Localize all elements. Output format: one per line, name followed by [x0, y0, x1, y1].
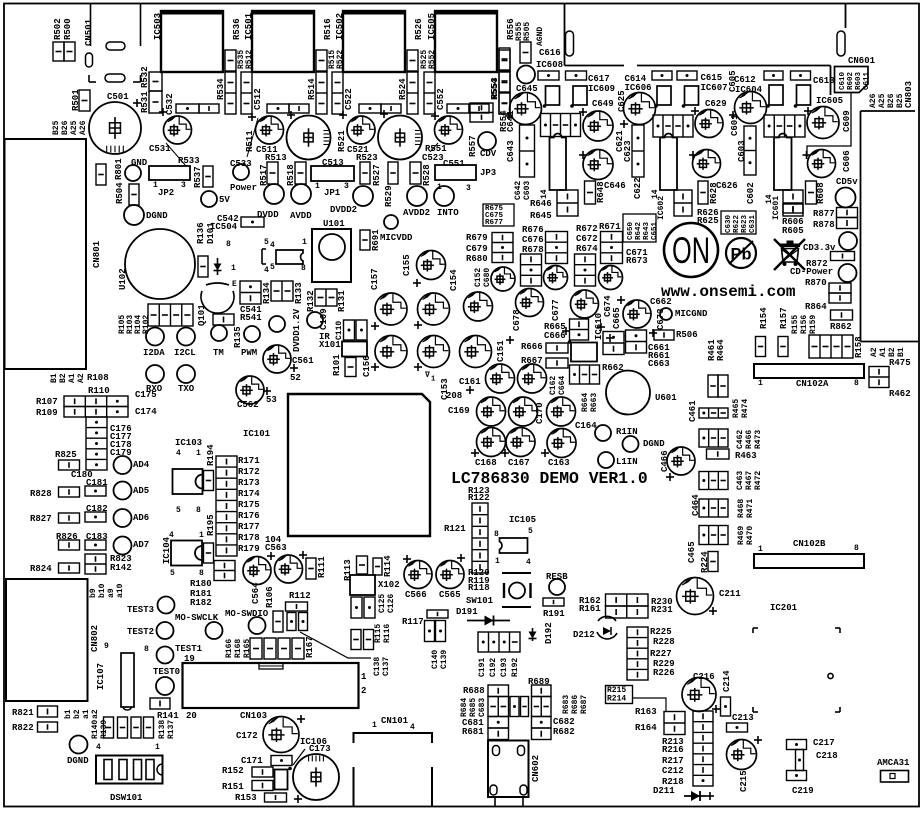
svg-text:C630: C630 [725, 214, 733, 233]
svg-text:R821: R821 [12, 708, 34, 718]
svg-text:R472: R472 [754, 471, 763, 490]
svg-text:C663: C663 [648, 359, 670, 369]
svg-text:R114: R114 [383, 555, 393, 577]
C156 plus [371, 363, 379, 371]
svg-text:JP2: JP2 [158, 188, 174, 198]
svg-text:CD-Power: CD-Power [790, 267, 833, 277]
board slot top-right [837, 31, 845, 56]
resistor R872 [831, 252, 855, 261]
ic IC501 [252, 11, 314, 72]
resistor R666 [546, 343, 568, 353]
capacitor C606 [808, 150, 836, 178]
dip switch DSW101 [96, 756, 163, 784]
svg-text:3: 3 [344, 182, 349, 191]
svg-text:R161: R161 [579, 604, 601, 614]
resistor R502 [53, 42, 64, 61]
svg-text:R537: R537 [193, 166, 203, 188]
svg-text:C611: C611 [863, 71, 871, 90]
C211 plus [709, 607, 717, 615]
resistor column R121 [472, 503, 488, 573]
C563 plus [299, 551, 307, 559]
svg-text:AVDD2: AVDD2 [403, 208, 430, 218]
svg-text:A25: A25 [70, 120, 79, 135]
svg-text:R106: R106 [265, 586, 275, 608]
svg-text:R521: R521 [337, 130, 347, 152]
svg-text:R173: R173 [238, 478, 260, 488]
svg-text:AMCA31: AMCA31 [877, 758, 910, 768]
svg-text:4: 4 [264, 266, 269, 275]
resistor network R105 R103 R104 R102 [148, 304, 193, 326]
svg-text:C213: C213 [732, 713, 754, 723]
capacitors C125 C126 [351, 597, 362, 618]
resistor R667 [546, 358, 568, 368]
svg-text:R512: R512 [245, 50, 254, 69]
svg-text:AGND: AGND [536, 27, 545, 46]
svg-text:C522: C522 [344, 88, 354, 110]
svg-text:R622: R622 [733, 214, 741, 233]
svg-text:R228: R228 [653, 637, 675, 647]
resistor R141 [150, 698, 170, 709]
svg-text:CN102B: CN102B [793, 539, 826, 549]
svg-text:R645: R645 [530, 211, 552, 221]
svg-text:C219: C219 [792, 786, 814, 796]
svg-text:R214: R214 [607, 695, 626, 704]
svg-text:C157: C157 [370, 268, 380, 290]
ic IC504 body [276, 250, 303, 264]
capacitor C678cap [516, 289, 544, 317]
plus marks caps row [248, 113, 256, 121]
svg-text:C169: C169 [448, 406, 470, 416]
svg-text:R231: R231 [651, 605, 673, 615]
ic IC107 [121, 653, 134, 710]
resistor R151 [252, 781, 273, 791]
svg-text:R552: R552 [428, 50, 437, 69]
fiducial circle [828, 673, 833, 678]
svg-text:IC101: IC101 [243, 429, 271, 439]
resistor R224 [708, 552, 718, 572]
pad MICGND [660, 308, 672, 320]
svg-text:X102: X102 [378, 580, 400, 590]
boxed labels R675 C675 R677 [483, 204, 514, 226]
svg-text:R828: R828 [30, 489, 52, 499]
capacitor C523 [378, 116, 422, 160]
ic U101 [312, 229, 351, 282]
svg-text:C561: C561 [292, 356, 314, 366]
svg-text:R224: R224 [700, 551, 710, 573]
svg-text:C215: C215 [739, 770, 749, 792]
svg-text:R116: R116 [383, 624, 392, 643]
svg-text:C622: C622 [633, 177, 643, 199]
resistor array R155 [809, 335, 853, 358]
svg-text:C562: C562 [237, 400, 259, 410]
resistor R114 [373, 558, 382, 575]
capacitor r1a [486, 364, 515, 393]
svg-text:C125: C125 [378, 594, 387, 613]
svg-text:R139: R139 [100, 720, 109, 739]
svg-text:R529: R529 [384, 185, 394, 207]
connector CN102A [754, 364, 864, 378]
capacitor C213 [727, 723, 748, 732]
CN501 slot 1 [106, 42, 125, 50]
svg-text:R180: R180 [190, 579, 212, 589]
resistor R828 [59, 487, 80, 497]
svg-text:A26: A26 [79, 120, 88, 135]
capacitor C171 [271, 756, 292, 766]
resistor R826 [59, 540, 80, 550]
svg-text:R822: R822 [12, 723, 34, 733]
svg-text:1: 1 [431, 376, 435, 384]
svg-text:DGND: DGND [67, 756, 89, 766]
svg-text:IC504: IC504 [210, 222, 238, 232]
pad AD7 [114, 537, 132, 555]
svg-text:R115: R115 [374, 624, 383, 643]
resistor column R213 [693, 711, 713, 786]
svg-text:C679: C679 [466, 244, 488, 254]
resistor array R662g [570, 365, 600, 384]
pad RXO [146, 365, 164, 383]
CN501 slot 2 [86, 53, 93, 67]
svg-text:X101: X101 [319, 340, 341, 350]
svg-text:C676: C676 [522, 235, 544, 245]
svg-text:R157: R157 [779, 307, 789, 329]
C501 plus [133, 99, 141, 107]
connector CN602 [488, 741, 529, 798]
svg-text:C564: C564 [251, 582, 261, 604]
resistor R101 [345, 358, 356, 377]
resistor array ch1 [541, 114, 581, 137]
svg-text:C682: C682 [553, 717, 575, 727]
svg-text:AD6: AD6 [133, 513, 149, 523]
pad R1IN [595, 425, 611, 441]
capacitor IC605cap [807, 107, 839, 139]
C645 plus [505, 112, 513, 120]
resistor array ch3 [764, 115, 805, 137]
svg-text:R178: R178 [238, 533, 260, 543]
resistors R823 R142 [85, 554, 106, 574]
svg-text:R137: R137 [167, 720, 176, 739]
resistor R111 [306, 558, 316, 579]
connector CN102B [754, 554, 864, 568]
jumper JP1 [311, 166, 354, 181]
svg-text:R110: R110 [88, 386, 110, 396]
svg-text:A2: A2 [870, 347, 879, 357]
svg-text:CN601: CN601 [848, 56, 876, 66]
svg-text:R182: R182 [190, 598, 212, 608]
svg-text:R685: R685 [469, 698, 478, 717]
jumper JP2 [149, 166, 190, 180]
svg-text:C214: C214 [722, 670, 732, 692]
C629 plus [691, 107, 699, 115]
svg-text:R673: R673 [626, 256, 648, 266]
svg-text:R473: R473 [754, 430, 763, 449]
svg-text:R878: R878 [813, 220, 835, 230]
svg-text:C566: C566 [405, 590, 427, 600]
labels R138 R137 [158, 720, 176, 739]
svg-text:www.onsemi.com: www.onsemi.com [661, 283, 796, 301]
capacitor C541 / resistor R541 [240, 281, 261, 304]
svg-text:C211: C211 [719, 589, 741, 599]
svg-text:R518: R518 [286, 164, 296, 186]
svg-text:R827: R827 [30, 514, 52, 524]
svg-text:20: 20 [186, 711, 197, 721]
svg-text:1: 1 [758, 545, 763, 554]
svg-text:R628: R628 [709, 182, 719, 204]
svg-text:IC107: IC107 [96, 663, 106, 690]
svg-text:R531: R531 [140, 91, 150, 113]
resistors R475 R462 [869, 367, 889, 388]
capacitor C565 [436, 561, 464, 589]
svg-text:R179: R179 [238, 544, 260, 554]
C626 plus [689, 151, 697, 159]
resistor stack mid2 [575, 254, 596, 286]
svg-text:R524: R524 [398, 78, 408, 100]
svg-text:R677: R677 [485, 219, 503, 227]
svg-text:R527: R527 [372, 164, 382, 186]
capacitor C626 [693, 150, 721, 178]
resistors R134 R133 [271, 281, 293, 301]
svg-text:C140: C140 [431, 650, 440, 669]
IC106 leader line [293, 749, 305, 765]
C154 plus [414, 321, 422, 329]
resistors R535 R512 stack [241, 72, 252, 114]
svg-text:IC605: IC605 [816, 96, 843, 106]
svg-text:R664: R664 [581, 393, 590, 412]
resistors ch1 below [557, 190, 578, 216]
pad TEST0 [156, 677, 174, 695]
C562 plus [263, 387, 271, 395]
resistor R501 [79, 90, 90, 111]
svg-text:R154: R154 [759, 307, 769, 329]
labels B25 B26 A25 A26 [52, 120, 88, 135]
svg-text:R553: R553 [490, 77, 500, 99]
pad DGND [124, 205, 144, 225]
C662 plus [617, 296, 625, 304]
svg-text:IC105: IC105 [509, 515, 536, 525]
svg-text:RESB: RESB [546, 572, 568, 582]
svg-text:R642: R642 [635, 221, 643, 240]
resistor R864 [831, 310, 853, 320]
svg-text:C193: C193 [500, 658, 509, 677]
svg-text:JP1: JP1 [324, 188, 341, 198]
svg-text:R112: R112 [289, 591, 311, 601]
svg-text:U101: U101 [323, 219, 345, 229]
svg-text:R683: R683 [562, 695, 571, 714]
svg-text:R164: R164 [635, 723, 657, 733]
svg-text:C126: C126 [387, 594, 396, 613]
svg-text:C168: C168 [475, 458, 497, 468]
pad PWM [244, 326, 260, 342]
svg-text:5: 5 [176, 506, 181, 515]
pad TEST3 [158, 597, 175, 614]
svg-text:C170: C170 [535, 402, 545, 424]
svg-text:R646: R646 [530, 199, 552, 209]
C564 plus [267, 552, 275, 560]
svg-text:C646: C646 [604, 181, 626, 191]
svg-text:C137: C137 [382, 657, 391, 676]
resistor R500 [64, 42, 75, 61]
svg-text:A26: A26 [869, 93, 878, 108]
pad CD5v [836, 188, 856, 208]
C566 plus [403, 555, 411, 563]
resistors R524 stack [407, 72, 418, 114]
svg-text:JP3: JP3 [480, 168, 496, 178]
svg-text:C651: C651 [651, 221, 659, 240]
svg-text:IC201: IC201 [770, 603, 798, 613]
svg-text:C672: C672 [576, 234, 598, 244]
svg-text:C218: C218 [816, 751, 838, 761]
svg-text:R602: R602 [847, 71, 855, 90]
svg-text:CN101: CN101 [381, 716, 409, 726]
svg-text:R684: R684 [460, 698, 469, 717]
resistor R536 [225, 50, 236, 71]
svg-text:R680: R680 [466, 254, 488, 264]
resistor column R225 [627, 627, 648, 680]
C561 plus [290, 364, 298, 372]
regulator ch1 [550, 134, 567, 191]
capacitor array C191 C192 C193 R192 [478, 632, 520, 652]
svg-text:R605: R605 [782, 226, 804, 236]
svg-text:R505: R505 [523, 22, 532, 41]
svg-text:CN803: CN803 [904, 81, 914, 108]
svg-text:C217: C217 [813, 738, 835, 748]
svg-text:C174: C174 [135, 407, 157, 417]
svg-text:R679: R679 [466, 233, 488, 243]
svg-text:1: 1 [315, 182, 320, 191]
pad IR [307, 312, 323, 328]
svg-text:C138: C138 [373, 657, 382, 676]
C172 plus [297, 715, 305, 723]
svg-text:R514: R514 [307, 78, 317, 100]
chip pair ch3 [447, 104, 469, 113]
pad TEST2 [157, 622, 174, 639]
svg-text:R676: R676 [522, 225, 544, 235]
CN501 slot 3 [105, 74, 125, 82]
labels R166 R168 R165 [225, 639, 252, 658]
resistor array R469 row [699, 526, 728, 545]
svg-text:8: 8 [494, 530, 499, 539]
resistor stack R679 [492, 233, 513, 263]
sot IC609b [573, 86, 587, 105]
svg-text:R877: R877 [813, 209, 835, 219]
svg-text:5: 5 [170, 569, 175, 578]
svg-text:R671: R671 [599, 222, 621, 232]
resistor R688 [488, 685, 509, 697]
svg-text:R133: R133 [294, 282, 304, 304]
svg-text:C631: C631 [749, 214, 757, 233]
resistor R827 [59, 513, 80, 523]
resistor R608 [806, 181, 817, 204]
plus C161 [466, 386, 474, 394]
svg-text:D211: D211 [653, 786, 675, 796]
resistor R529 [388, 162, 398, 184]
jumper JP3 [435, 165, 476, 180]
capacitor C216 [682, 678, 716, 712]
pad MO-SWCLK [206, 622, 223, 639]
capacitor C662 [623, 300, 651, 328]
svg-text:R216: R216 [662, 745, 684, 755]
labels R140 R139 [91, 720, 109, 739]
svg-text:R135: R135 [233, 326, 243, 348]
pad L1IN [598, 452, 614, 468]
svg-text:C678: C678 [512, 309, 522, 331]
IC604cap plus [729, 111, 737, 119]
crystal X102 [350, 575, 375, 595]
sot IC609a [546, 86, 560, 105]
svg-text:R226: R226 [653, 668, 675, 678]
svg-text:R132: R132 [306, 290, 316, 312]
svg-text:R541: R541 [240, 313, 262, 323]
svg-text:1: 1 [155, 743, 160, 752]
resistors ch3 below [783, 190, 803, 216]
svg-text:R663: R663 [590, 393, 599, 412]
capacitor C218 link [796, 750, 804, 771]
svg-text:C677: C677 [551, 299, 561, 321]
svg-text:8: 8 [854, 379, 859, 388]
svg-text:1: 1 [758, 379, 763, 388]
svg-text:C155: C155 [402, 254, 412, 276]
resistor R195c [204, 543, 214, 563]
svg-text:8: 8 [199, 569, 204, 578]
svg-text:C625: C625 [617, 90, 627, 112]
capacitor C214 [721, 697, 731, 716]
svg-text:R501: R501 [71, 89, 81, 111]
svg-text:TEST0: TEST0 [153, 667, 180, 677]
resistor R821 [38, 706, 58, 717]
svg-text:A1: A1 [68, 373, 77, 383]
transistor IC103 [173, 469, 203, 494]
svg-text:R166: R166 [225, 639, 234, 658]
svg-text:R603: R603 [855, 71, 863, 90]
svg-text:I2DA: I2DA [143, 348, 165, 358]
pad TEST1 [157, 647, 174, 664]
resistor stack R672 [601, 232, 623, 264]
ic IC610 [571, 343, 597, 362]
capacitors C601 C603r [744, 126, 756, 175]
svg-text:R471: R471 [746, 499, 755, 518]
C646 plus [579, 151, 587, 159]
svg-text:C664: C664 [558, 376, 567, 395]
svg-text:ON: ON [672, 230, 710, 271]
svg-text:4: 4 [96, 743, 101, 752]
capacitor C677cap [571, 290, 599, 318]
resistor R506 [654, 330, 674, 340]
svg-text:TEST1: TEST1 [175, 644, 203, 654]
capacitor C217 [787, 740, 807, 750]
svg-text:R474: R474 [741, 399, 750, 418]
resistor R682 [532, 728, 552, 740]
svg-text:C551: C551 [443, 159, 465, 169]
capacitors C663 stack [626, 330, 647, 353]
resistor R518 [295, 162, 306, 184]
capacitors C621 C623 [632, 125, 644, 177]
capacitor C168 [477, 428, 506, 457]
resistor R526 [407, 50, 418, 71]
svg-text:8: 8 [301, 264, 306, 273]
svg-text:C613: C613 [813, 76, 835, 86]
svg-text:1: 1 [196, 449, 201, 458]
resistor array R468 row [699, 499, 728, 517]
svg-text:R687: R687 [580, 695, 589, 714]
crystal X101 caps [344, 320, 368, 340]
svg-text:Power: Power [230, 183, 257, 193]
svg-text:IC608: IC608 [536, 60, 563, 70]
svg-text:R141: R141 [157, 711, 179, 721]
C649 plus [579, 108, 587, 116]
svg-text:R108: R108 [87, 373, 109, 383]
svg-text:4: 4 [410, 723, 415, 732]
svg-text:R467: R467 [745, 471, 754, 490]
capacitor C156 [375, 336, 407, 368]
